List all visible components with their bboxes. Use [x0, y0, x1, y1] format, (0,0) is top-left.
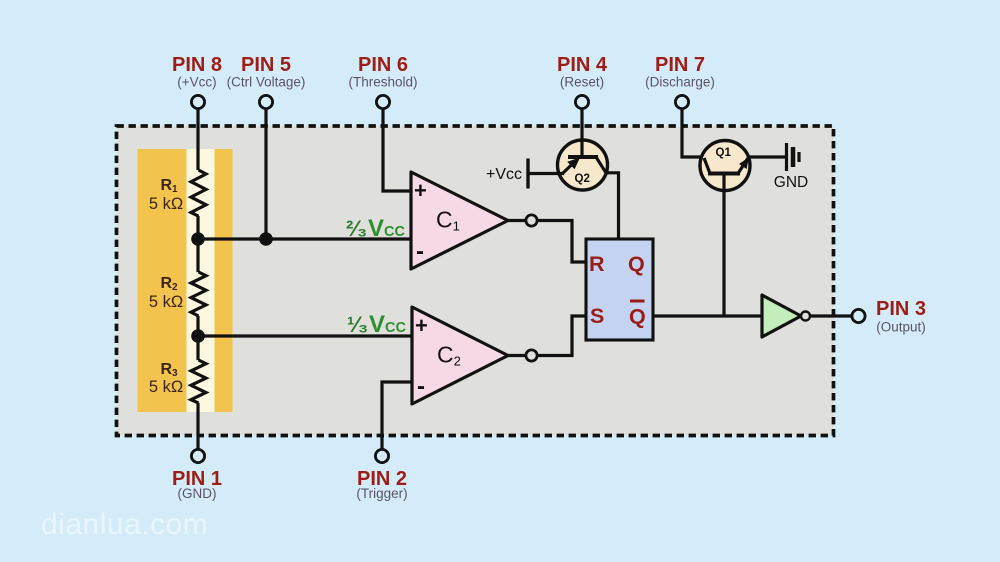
- svg-text:Q: Q: [629, 305, 646, 329]
- svg-text:(Threshold): (Threshold): [348, 75, 417, 90]
- svg-text:²⁄₃: ²⁄₃: [346, 216, 367, 241]
- wire C2 output: [508, 354, 526, 357]
- wire C1 output: [508, 219, 526, 222]
- svg-text:PIN 3: PIN 3: [876, 298, 926, 320]
- resistor R2: [149, 272, 206, 316]
- label PIN 8: [172, 54, 222, 90]
- comparator C1: [411, 172, 508, 269]
- svg-text:(Discharge): (Discharge): [645, 75, 715, 90]
- svg-text:5 kΩ: 5 kΩ: [149, 378, 183, 396]
- svg-text:PIN 4: PIN 4: [557, 54, 608, 76]
- svg-text:Q2: Q2: [575, 173, 590, 185]
- wire C2 to S input: [537, 316, 586, 356]
- label PIN 2: [356, 468, 407, 501]
- svg-text:(GND): (GND): [178, 486, 217, 501]
- svg-text:¹⁄₃: ¹⁄₃: [347, 312, 368, 337]
- C2 output bubble: [526, 350, 537, 361]
- watermark: [41, 508, 208, 541]
- svg-text:PIN 8: PIN 8: [172, 54, 222, 76]
- wire buffer to PIN3: [810, 314, 852, 317]
- svg-text:Q1: Q1: [716, 147, 732, 159]
- svg-text:GND: GND: [774, 174, 808, 191]
- comparator C2: [412, 307, 508, 404]
- terminal PIN2: [375, 449, 388, 462]
- wire PIN2 to C2 minus input: [382, 382, 412, 451]
- node A junction: [191, 232, 205, 246]
- wire node B to C2 plus input: [198, 334, 412, 337]
- resistor R1: [149, 170, 206, 216]
- voltage divider block (orange): [138, 149, 233, 412]
- svg-text:dianlua.com: dianlua.com: [41, 508, 208, 541]
- wire PIN5 vertical: [264, 105, 267, 239]
- svg-text:+Vcc: +Vcc: [486, 166, 522, 183]
- terminal PIN6: [376, 95, 389, 108]
- svg-text:S: S: [590, 304, 604, 328]
- wire C1 to R input: [537, 221, 586, 263]
- terminal PIN7: [675, 95, 688, 108]
- label PIN 4: [557, 54, 608, 90]
- wire PIN6 to C1 plus input: [383, 105, 411, 191]
- wire R2 to node B: [196, 316, 199, 360]
- terminal PIN4: [575, 95, 588, 108]
- terminal PIN5: [259, 95, 272, 108]
- transistor Q2: [558, 140, 619, 239]
- label PIN 5: [227, 54, 306, 90]
- svg-text:5 kΩ: 5 kΩ: [149, 195, 183, 213]
- ground: [774, 143, 808, 191]
- wire PIN7 to Q1: [682, 105, 705, 157]
- node B junction: [191, 329, 205, 343]
- terminal PIN3: [852, 309, 865, 322]
- node PIN5 junction: [259, 232, 273, 246]
- svg-text:5 kΩ: 5 kΩ: [149, 293, 183, 311]
- IC body (dashed box): [117, 126, 834, 436]
- wire Q1 emitter down to output net: [722, 174, 725, 316]
- svg-text:PIN 6: PIN 6: [358, 54, 408, 76]
- terminal PIN1: [191, 449, 204, 462]
- resistor R3: [149, 360, 206, 403]
- C1 output bubble: [526, 215, 537, 226]
- wire PIN4 to Q2 base: [580, 105, 583, 157]
- svg-text:Q: Q: [628, 252, 645, 276]
- transistor Q1: [700, 141, 750, 191]
- svg-text:(Trigger): (Trigger): [356, 486, 407, 501]
- svg-text:(Ctrl Voltage): (Ctrl Voltage): [227, 75, 306, 90]
- svg-text:-: -: [416, 238, 424, 265]
- label PIN 7: [645, 54, 715, 90]
- svg-text:PIN 5: PIN 5: [241, 54, 291, 76]
- output buffer: [762, 295, 810, 337]
- voltage divider inner strip: [187, 149, 215, 412]
- svg-text:R: R: [589, 252, 605, 276]
- label PIN 1: [172, 468, 222, 501]
- wire PIN8 to R1: [196, 105, 199, 170]
- svg-text:PIN 7: PIN 7: [655, 54, 705, 76]
- wire Qbar to buffer: [653, 314, 762, 317]
- terminal PIN8: [191, 95, 204, 108]
- label 2/3 Vcc: [346, 215, 405, 242]
- svg-text:+: +: [414, 178, 427, 203]
- wire R3 to PIN1: [196, 403, 199, 451]
- svg-text:(Reset): (Reset): [560, 75, 604, 90]
- wire node A to C1 minus input: [198, 237, 411, 240]
- svg-text:(Output): (Output): [876, 320, 926, 335]
- +Vcc supply for Q2: [486, 159, 564, 189]
- flip-flop U1: [586, 239, 653, 340]
- svg-text:-: -: [417, 373, 425, 400]
- label PIN 3: [876, 298, 926, 335]
- wire Q1 collector to ground: [747, 155, 785, 158]
- svg-text:+: +: [415, 313, 428, 338]
- label 1/3 Vcc: [347, 311, 406, 338]
- wire R1 to node A: [196, 216, 199, 272]
- svg-text:(+Vcc): (+Vcc): [177, 75, 216, 90]
- label PIN 6: [348, 54, 417, 90]
